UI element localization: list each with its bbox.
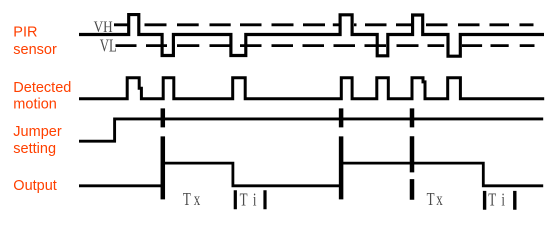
trigger tick mark A (x=162.8) <box>161 108 166 199</box>
svg-text:motion: motion <box>13 97 57 113</box>
svg-text:Detected: Detected <box>13 80 71 96</box>
Output signal waveform <box>79 163 543 186</box>
svg-text:Ti: Ti <box>240 191 263 211</box>
svg-text:PIR: PIR <box>13 25 37 41</box>
label: Output <box>13 178 57 194</box>
Ti interval bars left <box>235 190 265 209</box>
label: PIR sensor <box>13 25 57 58</box>
svg-text:Ti: Ti <box>488 191 511 211</box>
svg-text:Output: Output <box>13 178 57 194</box>
Detected motion signal waveform <box>79 78 544 99</box>
svg-text:Tx: Tx <box>183 190 203 210</box>
VL threshold dashed line <box>116 44 535 47</box>
VH threshold dashed line <box>114 23 534 26</box>
Jumper setting signal waveform <box>79 119 543 141</box>
PIR sensor signal waveform <box>79 15 544 57</box>
label: Jumper setting <box>13 124 62 157</box>
trigger tick mark B (x=341.1) <box>339 108 344 199</box>
svg-text:sensor: sensor <box>13 42 57 58</box>
svg-text:setting: setting <box>13 141 56 157</box>
Ti interval bars right <box>485 191 515 210</box>
svg-text:Tx: Tx <box>427 190 445 210</box>
svg-text:Jumper: Jumper <box>13 124 62 140</box>
label: Detected motion <box>13 80 71 113</box>
trigger tick mark C (x=412) <box>410 108 415 199</box>
svg-text:VL: VL <box>100 36 117 56</box>
